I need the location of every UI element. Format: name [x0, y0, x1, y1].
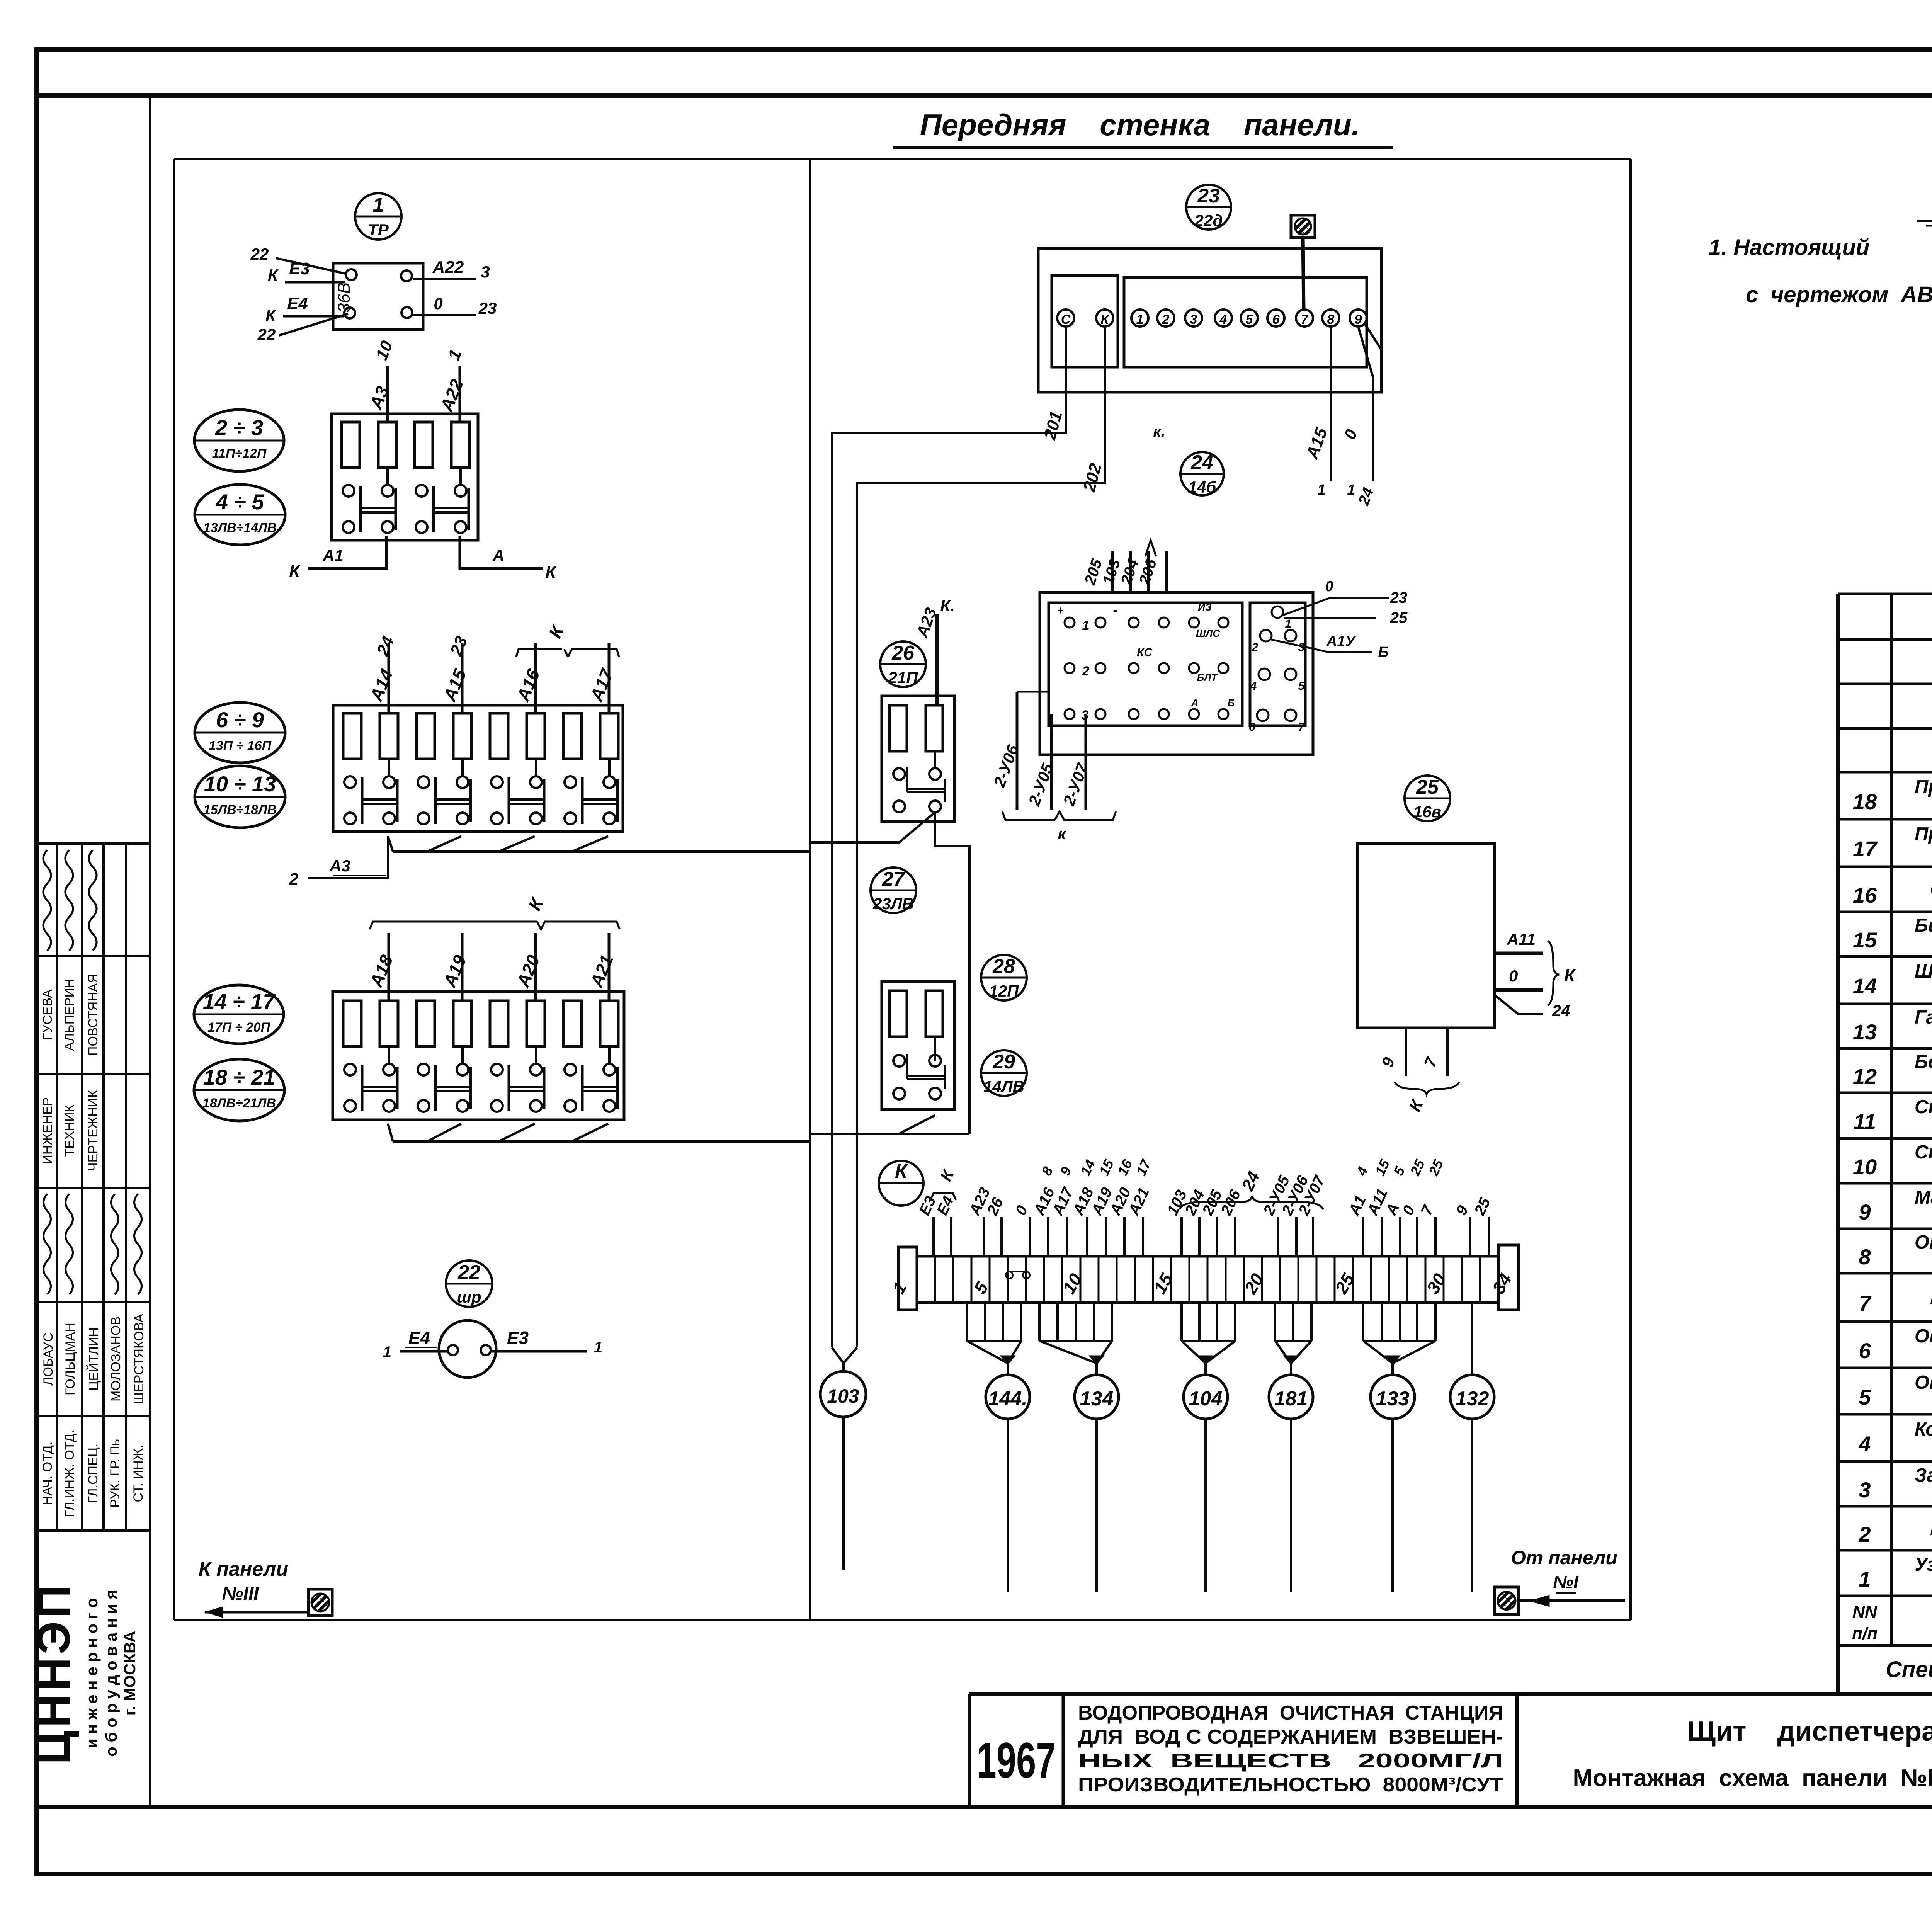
svg-text:Оконцеватель: Оконцеватель: [1915, 1372, 1932, 1393]
svg-text:ЧЕРТЕЖНИК: ЧЕРТЕЖНИК: [86, 1090, 100, 1171]
svg-text:К: К: [545, 622, 568, 641]
svg-text:6: 6: [1272, 312, 1280, 327]
svg-text:6: 6: [1859, 1339, 1871, 1363]
svg-text:21П: 21П: [888, 668, 918, 687]
svg-text:ГЛ.ИНЖ. ОТД.: ГЛ.ИНЖ. ОТД.: [62, 1430, 77, 1517]
svg-text:К.: К.: [940, 597, 955, 615]
svg-text:11П÷12П: 11П÷12П: [212, 446, 267, 461]
svg-text:5: 5: [1298, 680, 1305, 692]
svg-text:Стойка: Стойка: [1930, 878, 1932, 901]
svg-text:А21: А21: [586, 952, 617, 990]
svg-text:Провод ПРП 4х1,5: Провод ПРП 4х1,5: [1915, 777, 1932, 798]
svg-text:2: 2: [1082, 664, 1090, 679]
svg-text:22д: 22д: [1194, 211, 1223, 230]
svg-text:1: 1: [1317, 482, 1325, 498]
svg-text:ЛОБАУС: ЛОБАУС: [41, 1332, 56, 1386]
svg-text:23: 23: [1390, 589, 1408, 606]
svg-text:10: 10: [1853, 1155, 1877, 1179]
svg-text:К: К: [1101, 312, 1110, 327]
svg-text:9: 9: [1859, 1200, 1871, 1224]
svg-text:24: 24: [1238, 1169, 1264, 1194]
svg-text:25: 25: [1425, 1157, 1447, 1178]
svg-text:ИНЖЕНЕР: ИНЖЕНЕР: [40, 1097, 55, 1164]
svg-text:2: 2: [289, 870, 299, 889]
svg-text:22: 22: [250, 245, 269, 263]
svg-text:7: 7: [1418, 1202, 1437, 1218]
svg-text:104: 104: [1189, 1388, 1223, 1410]
svg-text:Монтажная схема панели №II.: Монтажная схема панели №II. (Окончание).: [1573, 1765, 1932, 1791]
svg-text:1: 1: [1347, 482, 1355, 498]
svg-text:25: 25: [1471, 1195, 1494, 1218]
svg-text:Шайба 6-011 ГОСТ: Шайба 6-011 ГОСТ: [1915, 961, 1932, 982]
svg-text:ВОДОПРОВОДНАЯ ОЧИСТНАЯ СТАНЦ: ВОДОПРОВОДНАЯ ОЧИСТНАЯ СТАНЦИЯ: [1078, 1702, 1503, 1724]
svg-text:18ЛВ÷21ЛВ: 18ЛВ÷21ЛВ: [202, 1096, 276, 1111]
svg-text:22: 22: [257, 325, 276, 344]
svg-text:0: 0: [1340, 427, 1361, 442]
svg-text:К панели: К панели: [199, 1558, 288, 1580]
svg-text:А1: А1: [322, 546, 344, 565]
svg-text:НАЧ. ОТД.: НАЧ. ОТД.: [40, 1442, 55, 1505]
svg-text:Бирка: Бирка: [1915, 915, 1932, 936]
svg-text:103: 103: [827, 1385, 859, 1407]
svg-text:А1У: А1У: [1326, 633, 1357, 650]
svg-text:27: 27: [882, 868, 905, 890]
svg-text:133: 133: [1376, 1388, 1410, 1410]
svg-text:9: 9: [1057, 1164, 1075, 1178]
svg-text:К: К: [265, 306, 277, 324]
svg-text:18 ÷ 21: 18 ÷ 21: [203, 1065, 275, 1089]
svg-text:А22: А22: [436, 376, 467, 415]
svg-text:3: 3: [481, 263, 490, 281]
svg-text:25: 25: [1407, 1157, 1428, 1178]
svg-text:А17: А17: [586, 665, 617, 704]
svg-text:ГОЛЬЦМАН: ГОЛЬЦМАН: [63, 1323, 78, 1395]
svg-text:А15: А15: [439, 666, 471, 704]
svg-text:0: 0: [1012, 1203, 1031, 1218]
svg-text:ДЛЯ ВОД С СОДЕРЖАНИЕМ ВЗВЕШЕ: ДЛЯ ВОД С СОДЕРЖАНИЕМ ВЗВЕШЕН-: [1078, 1726, 1503, 1748]
svg-text:А19: А19: [439, 952, 470, 990]
svg-text:1: 1: [1859, 1567, 1871, 1591]
svg-text:14ЛВ: 14ЛВ: [983, 1077, 1024, 1095]
svg-text:26: 26: [891, 642, 915, 664]
svg-text:7: 7: [1301, 312, 1309, 327]
svg-text:Е3: Е3: [289, 259, 310, 278]
svg-text:Колодка: Колодка: [1915, 1419, 1932, 1440]
svg-text:А15: А15: [1303, 425, 1331, 461]
svg-text:ШЕРСТЯКОВА: ШЕРСТЯКОВА: [132, 1314, 146, 1405]
svg-text:3: 3: [1190, 312, 1197, 327]
svg-text:8: 8: [1859, 1245, 1871, 1269]
svg-text:11: 11: [1854, 1109, 1876, 1134]
svg-text:От панели: От панели: [1511, 1547, 1617, 1568]
svg-text:0: 0: [1399, 1203, 1418, 1218]
svg-text:5: 5: [1246, 312, 1253, 327]
svg-text:СТ. ИНЖ.: СТ. ИНЖ.: [131, 1444, 146, 1502]
svg-text:16: 16: [1853, 883, 1877, 907]
svg-text:1: 1: [383, 1344, 391, 1361]
svg-text:Е4: Е4: [934, 1194, 957, 1218]
svg-text:0: 0: [434, 294, 442, 313]
svg-text:14: 14: [1853, 974, 1877, 998]
svg-text:6 ÷ 9: 6 ÷ 9: [216, 708, 264, 732]
svg-text:1: 1: [1082, 618, 1090, 633]
svg-text:ПРОИЗВОДИТЕЛЬНОСТЬЮ 8000М³/СУ: ПРОИЗВОДИТЕЛЬНОСТЬЮ 8000М³/СУТ: [1078, 1774, 1503, 1796]
svg-text:7: 7: [1859, 1291, 1872, 1315]
svg-text:К: К: [937, 1166, 958, 1184]
svg-text:12: 12: [1853, 1064, 1877, 1089]
svg-text:23: 23: [478, 299, 497, 317]
svg-text:1967: 1967: [977, 1732, 1056, 1788]
svg-text:206: 206: [1136, 557, 1160, 587]
svg-text:К: К: [289, 561, 301, 580]
svg-text:А16: А16: [513, 666, 544, 704]
svg-text:К: К: [524, 894, 548, 913]
svg-text:14 ÷ 17: 14 ÷ 17: [203, 989, 276, 1014]
svg-text:15ЛВ÷18ЛВ: 15ЛВ÷18ЛВ: [203, 803, 277, 817]
svg-text:Оконцеватель: Оконцеватель: [1915, 1232, 1932, 1253]
svg-text:ТР: ТР: [368, 221, 389, 239]
svg-text:144.: 144.: [988, 1388, 1027, 1410]
svg-text:ЦННЭП: ЦННЭП: [28, 1582, 80, 1765]
svg-text:134: 134: [1080, 1388, 1114, 1410]
svg-text:2 ÷ 3: 2 ÷ 3: [215, 415, 263, 440]
svg-text:А: А: [492, 546, 504, 565]
svg-text:24: 24: [373, 634, 398, 659]
svg-text:К: К: [895, 1160, 908, 1182]
svg-text:23: 23: [446, 634, 471, 659]
svg-text:и н ж е н е р н о г о: и н ж е н е р н о г о: [83, 1598, 101, 1749]
svg-text:10 ÷ 13: 10 ÷ 13: [204, 772, 276, 796]
svg-text:А20: А20: [513, 952, 544, 990]
svg-text:А14: А14: [366, 666, 397, 704]
svg-text:8: 8: [1038, 1164, 1056, 1178]
svg-text:2: 2: [1858, 1522, 1871, 1546]
svg-text:9: 9: [1452, 1203, 1472, 1218]
svg-text:15: 15: [1096, 1157, 1117, 1178]
svg-text:Скоба: Скоба: [1915, 1142, 1932, 1163]
svg-text:1. Настоящий: 1. Настоящий: [1709, 235, 1869, 260]
svg-text:Оконцеватель: Оконцеватель: [1915, 1326, 1932, 1347]
svg-text:23: 23: [1197, 185, 1220, 207]
svg-text:2: 2: [1162, 312, 1170, 327]
svg-text:НЫХ ВЕЩЕСТВ 2000МГ/Л: НЫХ ВЕЩЕСТВ 2000МГ/Л: [1078, 1750, 1503, 1772]
svg-text:10: 10: [372, 338, 397, 363]
svg-text:16в: 16в: [1413, 803, 1441, 821]
svg-text:Спецификация: Спецификация: [1886, 1657, 1932, 1682]
svg-text:1: 1: [444, 347, 466, 363]
svg-text:202: 202: [1080, 461, 1105, 494]
svg-text:-: -: [1113, 603, 1117, 617]
svg-text:Провод ПВ1х1,5 ГОСТ: Провод ПВ1х1,5 ГОСТ: [1915, 824, 1932, 845]
svg-text:17: 17: [1133, 1157, 1154, 1178]
svg-text:25: 25: [1390, 609, 1408, 626]
svg-text:ТЕХНИК: ТЕХНИК: [62, 1104, 77, 1157]
svg-text:9: 9: [1355, 312, 1362, 327]
svg-text:Манжетка: Манжетка: [1915, 1187, 1932, 1208]
svg-text:NN: NN: [1852, 1602, 1878, 1621]
svg-text:+: +: [1057, 604, 1064, 617]
svg-text:Болт М6х15-051 ГОСТ: Болт М6х15-051 ГОСТ: [1915, 1051, 1932, 1072]
svg-text:ЦЕЙТЛИН: ЦЕЙТЛИН: [87, 1327, 101, 1391]
svg-text:АЛЬПЕРИН: АЛЬПЕРИН: [62, 979, 77, 1051]
svg-text:Б: Б: [1228, 697, 1235, 709]
svg-text:24: 24: [1355, 485, 1377, 508]
svg-text:22: 22: [457, 1261, 480, 1284]
svg-text:17П ÷ 20П: 17П ÷ 20П: [207, 1020, 271, 1035]
svg-text:7: 7: [1420, 1055, 1441, 1070]
svg-text:34: 34: [1488, 1270, 1516, 1297]
svg-text:с чертежом АВII-2-6 ; АВII-: с чертежом АВII-2-6 ; АВII-2-1 ;АВI-3-16…: [1746, 282, 1932, 307]
svg-text:А3: А3: [329, 857, 350, 875]
svg-text:14б: 14б: [1188, 478, 1217, 496]
svg-text:181: 181: [1274, 1388, 1308, 1410]
svg-text:4: 4: [1250, 680, 1257, 692]
svg-text:14: 14: [1077, 1157, 1098, 1178]
svg-text:28: 28: [992, 955, 1015, 978]
svg-text:25: 25: [1416, 776, 1439, 798]
svg-text:ГУСЕВА: ГУСЕВА: [40, 989, 55, 1040]
svg-text:1: 1: [594, 1339, 602, 1356]
svg-text:3: 3: [1859, 1478, 1871, 1502]
svg-text:4: 4: [1219, 312, 1227, 327]
svg-text:13П ÷ 16П: 13П ÷ 16П: [209, 738, 272, 753]
svg-text:1: 1: [373, 194, 384, 216]
svg-text:А11: А11: [1507, 930, 1536, 948]
svg-text:ПОВСТЯНАЯ: ПОВСТЯНАЯ: [86, 974, 100, 1056]
svg-text:1: 1: [1285, 617, 1292, 630]
svg-text:24: 24: [1552, 1002, 1570, 1020]
svg-text:К: К: [545, 563, 557, 582]
svg-text:РУК. ГР. Пь: РУК. ГР. Пь: [108, 1439, 122, 1508]
svg-text:7: 7: [1298, 721, 1305, 733]
svg-text:0: 0: [1325, 578, 1333, 595]
svg-text:К: К: [1405, 1096, 1427, 1114]
svg-text:Рейка зажимов: Рейка зажимов: [1930, 1517, 1932, 1540]
svg-text:г. МОСКВА: г. МОСКВА: [121, 1631, 139, 1716]
svg-text:А17: А17: [1049, 1184, 1077, 1218]
svg-text:С: С: [1061, 312, 1071, 327]
svg-text:КС: КС: [1137, 646, 1153, 659]
svg-text:Скоба: Скоба: [1915, 1097, 1932, 1118]
svg-text:ИЗ: ИЗ: [1198, 601, 1212, 613]
svg-text:1: 1: [1136, 312, 1144, 327]
svg-text:к: к: [1058, 825, 1066, 843]
svg-text:5: 5: [1859, 1385, 1871, 1409]
svg-text:Б: Б: [1378, 644, 1389, 660]
svg-text:Е4: Е4: [287, 294, 308, 313]
svg-text:Е3: Е3: [507, 1328, 529, 1348]
svg-text:15: 15: [1372, 1157, 1393, 1178]
svg-text:18: 18: [1853, 789, 1877, 814]
svg-text:2: 2: [1252, 641, 1259, 654]
svg-text:13: 13: [1853, 1020, 1877, 1044]
svg-text:А18: А18: [366, 952, 397, 990]
svg-text:6: 6: [1249, 721, 1255, 733]
svg-text:29: 29: [992, 1051, 1015, 1073]
svg-text:12П: 12П: [989, 982, 1019, 1000]
svg-text:БЛТ: БЛТ: [1197, 672, 1218, 683]
svg-text:Шайба-звездочка: Шайба-звездочка: [1930, 1286, 1932, 1309]
svg-text:4 ÷ 5: 4 ÷ 5: [216, 490, 264, 514]
svg-text:9: 9: [1378, 1055, 1398, 1070]
svg-text:Е4: Е4: [408, 1328, 430, 1348]
svg-text:о б о р у д о в а н и я: о б о р у д о в а н и я: [102, 1590, 120, 1757]
svg-text:шр: шр: [457, 1288, 481, 1306]
svg-text:№III: №III: [222, 1584, 259, 1604]
svg-text:30: 30: [1423, 1270, 1450, 1297]
svg-text:К: К: [268, 266, 279, 284]
svg-text:п/п: п/п: [1852, 1624, 1878, 1643]
svg-text:Узел заземления: Узел заземления: [1915, 1554, 1932, 1575]
svg-text:16: 16: [1114, 1157, 1135, 1178]
svg-text:13ЛВ÷14ЛВ: 13ЛВ÷14ЛВ: [203, 520, 277, 535]
svg-text:0: 0: [1509, 967, 1518, 985]
svg-text:23ЛВ: 23ЛВ: [872, 895, 914, 913]
svg-text:А: А: [1191, 697, 1199, 709]
svg-text:К: К: [1564, 965, 1576, 985]
svg-text:17: 17: [1853, 837, 1878, 861]
svg-text:МОЛОЗАНОВ: МОЛОЗАНОВ: [109, 1317, 123, 1402]
svg-text:А1: А1: [1345, 1193, 1369, 1218]
svg-text:Щит диспетчера: Щит диспетчера: [1687, 1716, 1932, 1747]
svg-text:24: 24: [1190, 451, 1213, 474]
svg-text:4: 4: [1858, 1432, 1871, 1456]
svg-text:4: 4: [1353, 1164, 1371, 1178]
svg-text:132: 132: [1456, 1388, 1489, 1410]
svg-text:А22: А22: [432, 258, 464, 277]
svg-text:Передняя стенка панели.: Передняя стенка панели.: [920, 108, 1360, 142]
svg-text:5: 5: [1390, 1164, 1408, 1178]
svg-text:201: 201: [1040, 409, 1066, 442]
svg-text:к.: к.: [1153, 423, 1165, 440]
svg-text:15: 15: [1853, 928, 1877, 952]
svg-text:ШЛС: ШЛС: [1196, 628, 1220, 639]
svg-text:Гайка 6-011 ГОСТ: Гайка 6-011 ГОСТ: [1915, 1007, 1932, 1028]
svg-text:8: 8: [1327, 312, 1335, 327]
svg-text:Зажим коммутацион-: Зажим коммутацион-: [1915, 1465, 1932, 1486]
svg-text:ГЛ.СПЕЦ.: ГЛ.СПЕЦ.: [86, 1444, 100, 1504]
svg-text:№I: №I: [1553, 1572, 1579, 1592]
